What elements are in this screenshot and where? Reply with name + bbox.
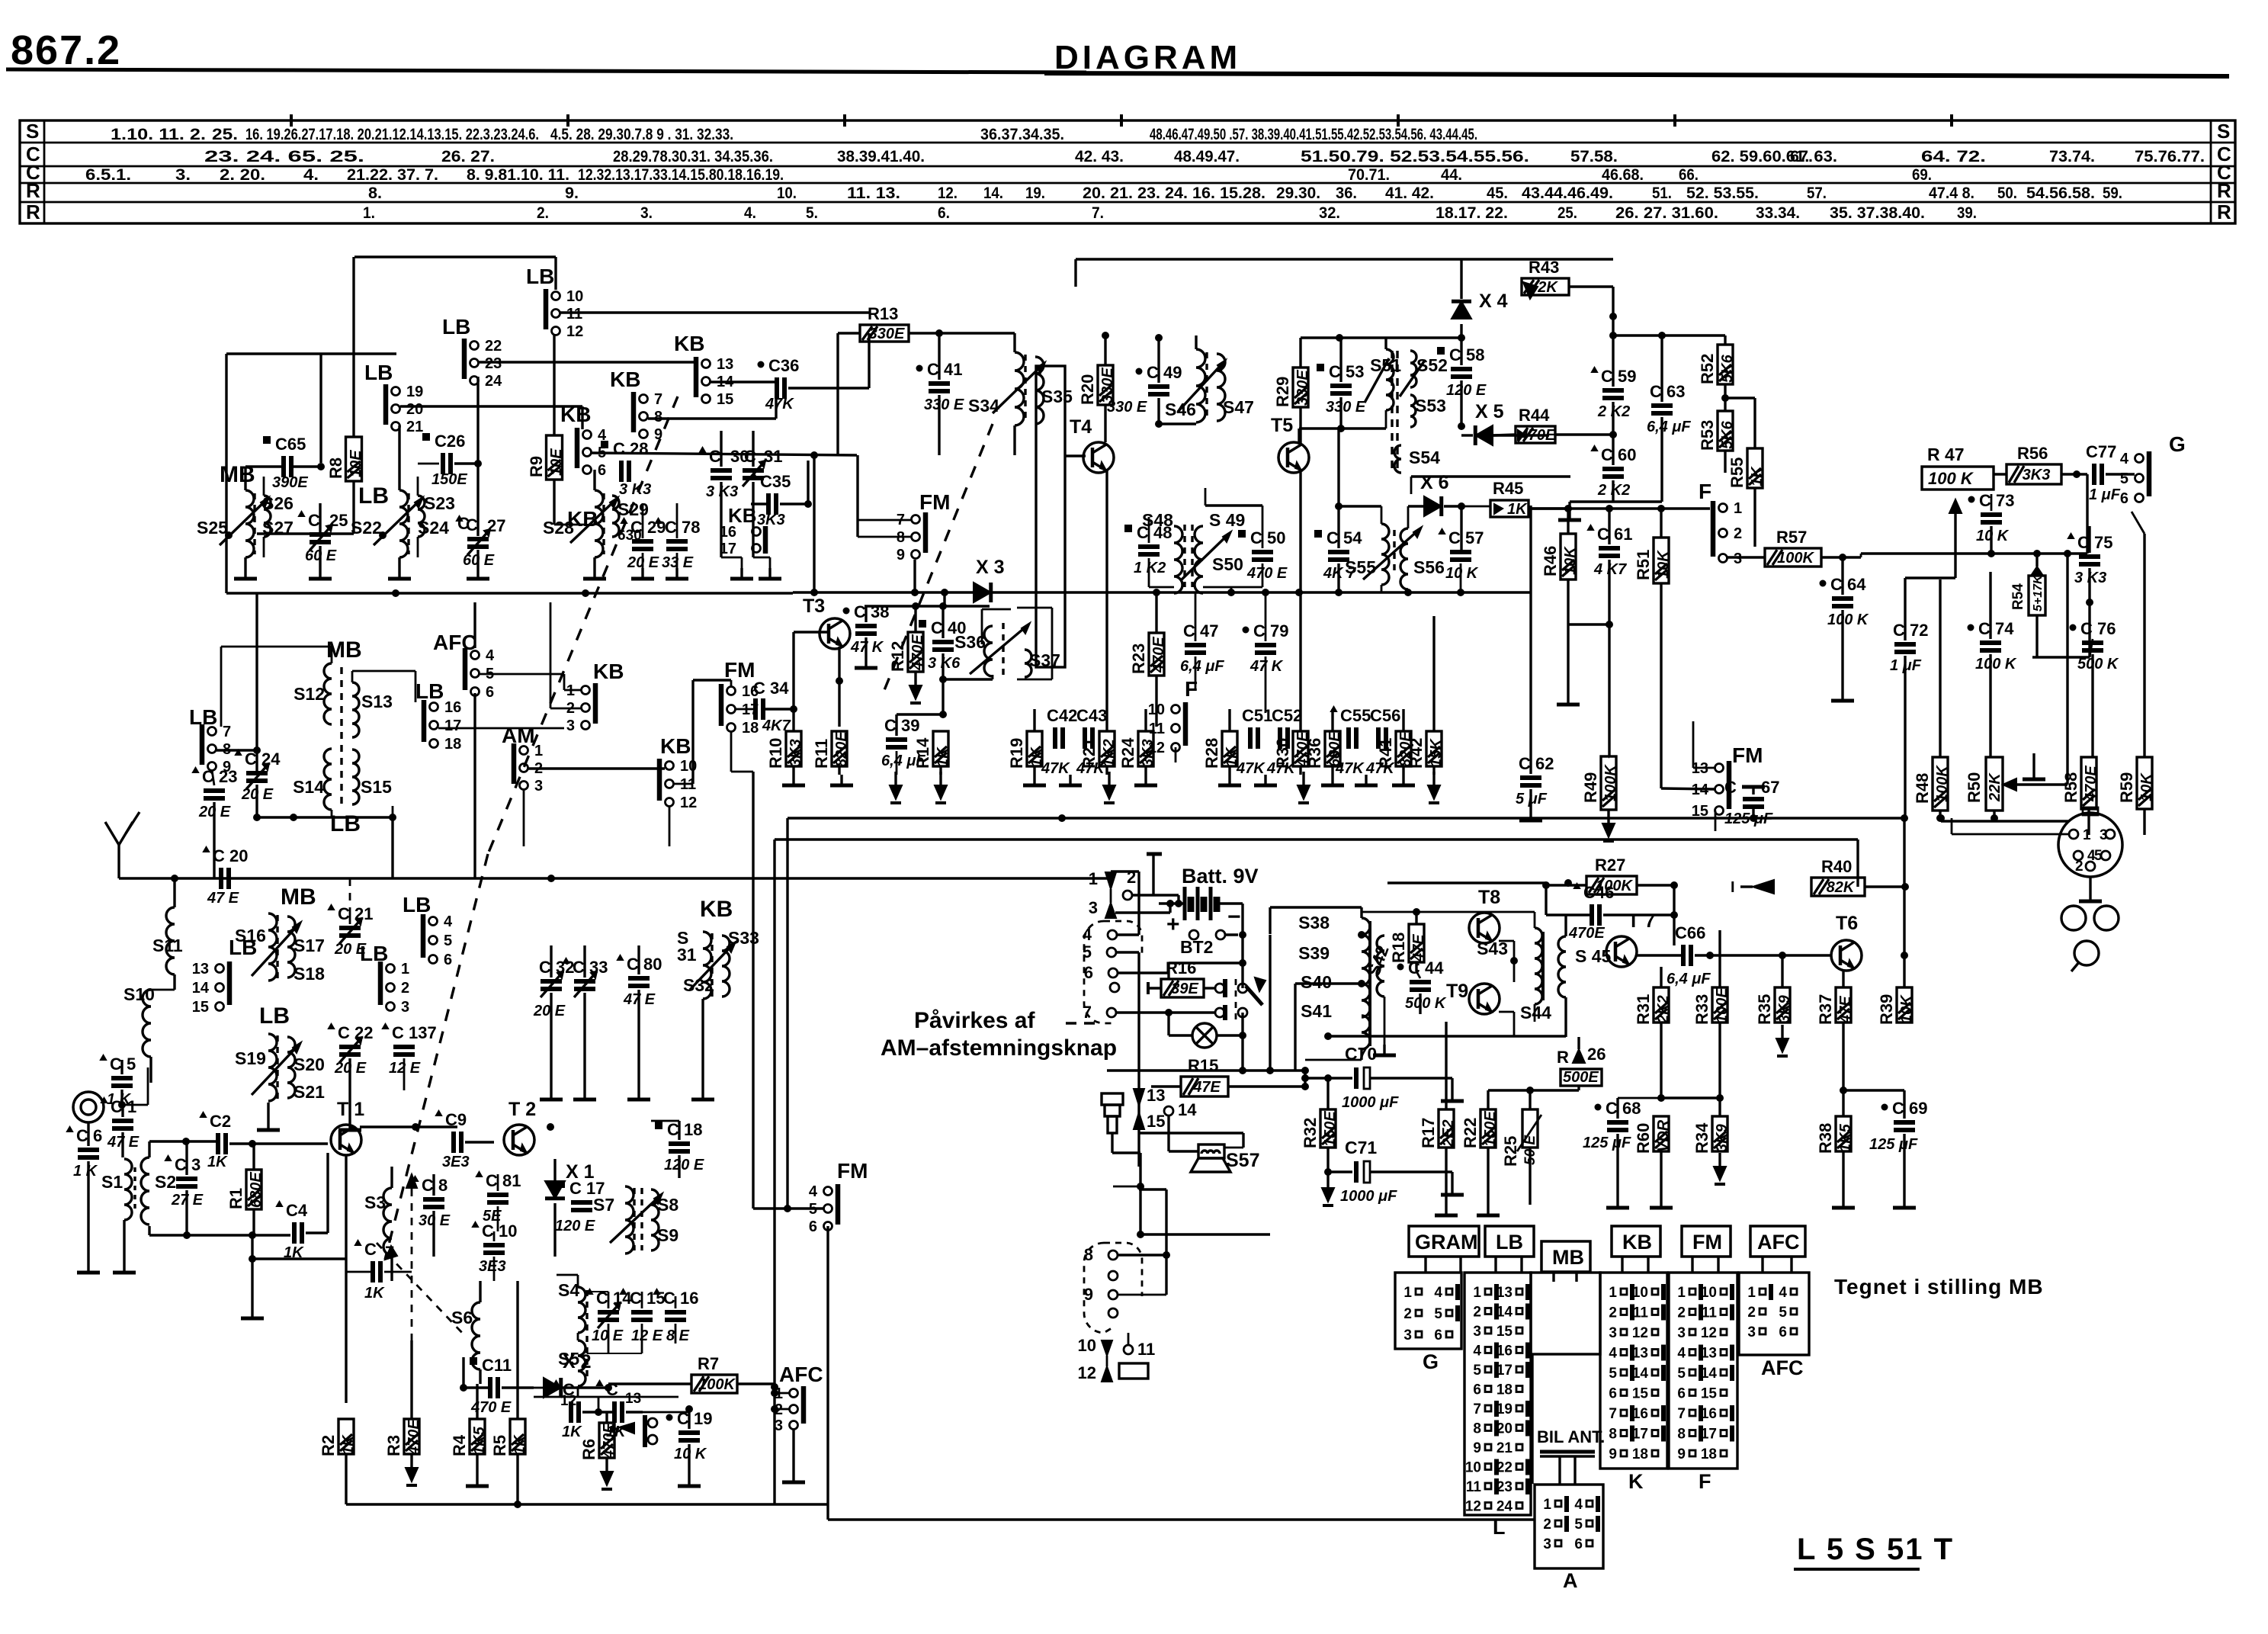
- svg-text:2: 2: [1543, 1517, 1551, 1533]
- svg-text:7: 7: [1473, 1401, 1481, 1417]
- resistor R4 1K5: [470, 1419, 485, 1454]
- svg-text:11: 11: [1137, 1340, 1155, 1359]
- svg-text:7: 7: [1083, 1003, 1092, 1022]
- capacitor C75 3K3: [2079, 554, 2100, 559]
- svg-text:330 E: 330 E: [1107, 399, 1147, 416]
- svg-text:C 34: C 34: [753, 679, 789, 698]
- svg-text:C26: C26: [435, 432, 465, 451]
- svg-text:44.: 44.: [1441, 166, 1462, 184]
- diode X2: [544, 1378, 561, 1398]
- svg-text:2: 2: [1677, 1305, 1686, 1321]
- svg-text:6: 6: [1779, 1324, 1787, 1340]
- transistor T8: [1469, 913, 1500, 943]
- pins 13 14 15 antenna: [1134, 1089, 1144, 1106]
- svg-text:S19: S19: [235, 1048, 266, 1068]
- wire pin14 down: [1167, 1116, 1169, 1151]
- svg-text:18: 18: [742, 720, 759, 737]
- wire upper vertical to C65: [319, 354, 322, 463]
- svg-text:L 5 S 51 T: L 5 S 51 T: [1797, 1533, 1954, 1566]
- svg-text:6: 6: [444, 952, 452, 968]
- trimmer capacitor C33 20E: [574, 979, 595, 984]
- svg-text:X 6: X 6: [1420, 472, 1449, 493]
- capacitor C30 3K3: [711, 468, 732, 473]
- svg-text:32.: 32.: [1319, 204, 1340, 222]
- capacitor C35 3K3: [766, 493, 771, 515]
- svg-text:A: A: [1563, 1569, 1578, 1592]
- svg-text:S27: S27: [262, 518, 294, 538]
- capacitor C80 47E: [628, 976, 650, 981]
- svg-text:39.: 39.: [1957, 204, 1977, 222]
- svg-text:C 59: C 59: [1601, 367, 1636, 386]
- capacitor C11 470E: [488, 1377, 492, 1398]
- svg-text:3E3: 3E3: [442, 1154, 470, 1170]
- svg-text:C 58: C 58: [1449, 345, 1484, 364]
- svg-text:AFC: AFC: [433, 631, 477, 654]
- svg-text:57.58.: 57.58.: [1570, 148, 1618, 165]
- DIN socket right: [2058, 813, 2122, 877]
- svg-text:1: 1: [1747, 1285, 1756, 1301]
- battery connector BT2: [1189, 930, 1198, 939]
- svg-text:3: 3: [1734, 551, 1742, 567]
- svg-text:46.68.: 46.68.: [1602, 166, 1644, 184]
- svg-text:C 74: C 74: [1978, 619, 2014, 638]
- svg-text:S35: S35: [1041, 387, 1073, 406]
- component location table frame: [20, 120, 2235, 223]
- coil S45 driver: [1558, 936, 1566, 997]
- svg-text:67.: 67.: [1790, 148, 1813, 165]
- connector block F: [1669, 1273, 1737, 1469]
- svg-text:S7: S7: [593, 1195, 614, 1215]
- svg-text:4: 4: [1473, 1343, 1481, 1360]
- svg-text:5+17K: 5+17K: [2032, 574, 2045, 612]
- resistor R41 820E: [1396, 731, 1411, 766]
- svg-text:2. 20.: 2. 20.: [220, 166, 265, 184]
- coil S36 S37: [984, 626, 993, 676]
- svg-text:R30: R30: [1273, 738, 1292, 769]
- potentiometer R54 5+17K: [2029, 576, 2045, 615]
- resistor R19 1K: [1027, 731, 1042, 766]
- svg-text:C46: C46: [1583, 883, 1614, 902]
- capacitor C62 5uF: [1520, 775, 1541, 780]
- svg-text:C 64: C 64: [1830, 575, 1866, 594]
- svg-text:S3: S3: [364, 1193, 386, 1212]
- svg-text:9: 9: [1609, 1446, 1617, 1462]
- svg-text:C 50: C 50: [1250, 528, 1285, 547]
- svg-text:6.5.1.: 6.5.1.: [85, 166, 131, 184]
- capacitor C18 120E: [669, 1141, 690, 1146]
- svg-text:1K: 1K: [512, 1434, 528, 1455]
- svg-text:470 E: 470 E: [1246, 565, 1288, 582]
- svg-text:S6: S6: [451, 1308, 473, 1327]
- svg-text:47K: 47K: [1335, 760, 1365, 777]
- capacitor C65 390E: [281, 456, 286, 477]
- svg-text:C 81: C 81: [486, 1171, 521, 1190]
- svg-text:4: 4: [2120, 451, 2129, 467]
- svg-text:8. 9.81.10. 11.: 8. 9.81.10. 11.: [467, 166, 569, 184]
- capacitor C71 1000uF: [1354, 1161, 1359, 1183]
- svg-text:R21: R21: [1079, 738, 1099, 769]
- svg-text:28.29.78.30.31. 34.35.36.: 28.29.78.30.31. 34.35.36.: [613, 148, 773, 165]
- transistor T2: [504, 1125, 534, 1155]
- battery switch box: [1111, 870, 1139, 872]
- capacitor C77 1uF: [2092, 464, 2096, 485]
- svg-text:26. 27. 31.60.: 26. 27. 31.60.: [1615, 204, 1718, 222]
- svg-text:S39: S39: [1298, 943, 1330, 963]
- svg-text:C: C: [709, 447, 721, 466]
- svg-text:1: 1: [1677, 1285, 1686, 1301]
- svg-text:C66: C66: [1675, 923, 1705, 942]
- svg-text:22K: 22K: [1987, 772, 2003, 802]
- connector block L: [1464, 1273, 1531, 1515]
- svg-text:24: 24: [485, 373, 502, 390]
- resistor R5 1K: [510, 1419, 525, 1454]
- capacitor C20 47E: [219, 868, 223, 889]
- bottom bus middle: [775, 1503, 828, 1505]
- svg-text:S41: S41: [1301, 1001, 1332, 1021]
- svg-text:64. 72.: 64. 72.: [1921, 148, 1986, 165]
- svg-text:3K9: 3K9: [1776, 994, 1793, 1023]
- svg-text:19: 19: [406, 384, 423, 400]
- svg-text:C 53: C 53: [1329, 362, 1364, 381]
- svg-text:4: 4: [1779, 1285, 1787, 1301]
- svg-text:29.30.: 29.30.: [1276, 185, 1320, 202]
- svg-text:C52: C52: [1272, 706, 1302, 725]
- svg-text:16: 16: [1701, 1406, 1717, 1422]
- svg-text:8: 8: [1473, 1421, 1481, 1437]
- svg-text:T 2: T 2: [508, 1099, 536, 1120]
- resistor R34 3K9: [1712, 1116, 1727, 1151]
- headphone jacks: [2061, 906, 2086, 930]
- wire oscillator bus down to C24 node: [255, 593, 258, 772]
- svg-text:150E: 150E: [1322, 1111, 1339, 1147]
- wire LB17 right: [438, 727, 564, 730]
- svg-text:6: 6: [1084, 963, 1093, 982]
- svg-text:33.34.: 33.34.: [1756, 204, 1800, 222]
- svg-text:LB: LB: [259, 1003, 290, 1029]
- diode X1: [545, 1181, 565, 1199]
- diode X3: [974, 583, 991, 602]
- svg-text:26. 27.: 26. 27.: [441, 148, 495, 165]
- svg-text:R33: R33: [1692, 994, 1711, 1025]
- svg-text:C 75: C 75: [2077, 533, 2112, 552]
- resistor R49 100K: [1601, 756, 1616, 810]
- coils S4 S5: [578, 1287, 585, 1333]
- capacitor C34 4K7: [753, 698, 758, 720]
- svg-text:R23: R23: [1129, 644, 1148, 674]
- svg-text:C43: C43: [1076, 706, 1107, 725]
- svg-text:1: 1: [1609, 1285, 1617, 1301]
- svg-text:1: 1: [1734, 500, 1742, 517]
- svg-text:R51: R51: [1634, 550, 1653, 580]
- svg-text:R37: R37: [1816, 994, 1835, 1025]
- capacitor C50 470E: [1252, 550, 1273, 554]
- capacitor C6 1K: [78, 1148, 99, 1152]
- svg-text:25.: 25.: [1557, 204, 1577, 222]
- wire AFC5 right: [480, 673, 564, 676]
- svg-text:11: 11: [1466, 1479, 1482, 1495]
- resistor R40 82K: [1811, 878, 1865, 896]
- resistor R29 330E: [1293, 368, 1308, 407]
- svg-text:R27: R27: [1595, 856, 1625, 875]
- svg-text:31: 31: [677, 945, 697, 965]
- svg-text:S9: S9: [657, 1225, 678, 1245]
- top right feed wire: [1076, 258, 1461, 260]
- svg-text:35. 37.38.40.: 35. 37.38.40.: [1830, 204, 1925, 222]
- whip antenna symbol: [117, 845, 120, 878]
- svg-text:R38: R38: [1816, 1123, 1835, 1154]
- svg-text:13: 13: [625, 1391, 641, 1407]
- svg-text:100 K: 100 K: [1928, 469, 1974, 488]
- label box MB: [1541, 1241, 1590, 1272]
- resistor R59 10K: [2137, 757, 2152, 809]
- svg-text:73.74.: 73.74.: [2049, 148, 2095, 165]
- svg-text:C 22: C 22: [338, 1023, 373, 1042]
- capacitor C53 330E: [1330, 384, 1352, 388]
- svg-text:10: 10: [1632, 1285, 1648, 1301]
- svg-text:1.: 1.: [363, 204, 375, 222]
- svg-text:10: 10: [680, 758, 697, 775]
- svg-text:47K: 47K: [1236, 760, 1266, 777]
- svg-text:S22: S22: [351, 518, 382, 538]
- IF transformer S48 S49 S50: [1174, 526, 1182, 593]
- svg-text:R48: R48: [1913, 773, 1932, 804]
- capacitor C55 47K: [1346, 727, 1351, 749]
- svg-text:LB: LB: [364, 361, 393, 384]
- svg-text:C 44: C 44: [1408, 958, 1444, 978]
- capacitor C74 100K: [1980, 640, 2001, 645]
- svg-text:C 18: C 18: [667, 1120, 702, 1139]
- svg-text:R43: R43: [1529, 258, 1559, 277]
- capacitor C16 8E: [665, 1310, 686, 1315]
- capacitor C81 5E: [487, 1193, 508, 1197]
- svg-text:15K: 15K: [1428, 738, 1445, 767]
- svg-text:X 2: X 2: [563, 1351, 592, 1372]
- table tick marks: [290, 114, 293, 127]
- svg-text:S32: S32: [683, 975, 714, 995]
- svg-text:47.4 8.: 47.4 8.: [1929, 185, 1974, 202]
- svg-text:C 28: C 28: [613, 439, 648, 458]
- capacitor C29 20E: [632, 539, 653, 544]
- ground under S32: [701, 1089, 704, 1099]
- input transformer S1 S2: [124, 1159, 132, 1220]
- svg-text:S20: S20: [294, 1055, 325, 1074]
- capacitor C3 27E: [176, 1177, 197, 1181]
- svg-text:2: 2: [1473, 1305, 1481, 1321]
- lamp: [1192, 1023, 1217, 1048]
- svg-text:R2: R2: [319, 1435, 338, 1456]
- svg-text:R: R: [2217, 179, 2231, 202]
- capacitor C28 3K3: [619, 461, 624, 482]
- svg-text:17: 17: [444, 717, 461, 734]
- wire AM2 to KB10: [528, 767, 665, 769]
- svg-text:12.32.13.17.33.14.15.80.18.16.: 12.32.13.17.33.14.15.80.18.16.19.: [578, 166, 784, 184]
- wires DIN pins: [1117, 933, 1139, 936]
- svg-text:S21: S21: [294, 1082, 325, 1102]
- svg-text:AFC: AFC: [1757, 1231, 1800, 1254]
- svg-text:5: 5: [1083, 942, 1092, 961]
- svg-text:3: 3: [1747, 1324, 1756, 1340]
- connector block G: [1395, 1273, 1461, 1349]
- svg-text:22: 22: [1496, 1460, 1513, 1476]
- svg-text:R1: R1: [226, 1188, 245, 1209]
- svg-text:BIL ANT.: BIL ANT.: [1537, 1427, 1605, 1446]
- svg-text:T 1: T 1: [337, 1099, 364, 1120]
- wire pin7 row: [1116, 1011, 1215, 1013]
- supply bus left drop: [786, 818, 788, 1209]
- ground rail under C60 C63: [1570, 500, 1662, 502]
- svg-text:100K: 100K: [698, 1376, 736, 1393]
- svg-text:C 68: C 68: [1606, 1099, 1641, 1118]
- svg-text:39E: 39E: [1171, 981, 1198, 997]
- svg-text:7: 7: [1677, 1406, 1686, 1422]
- svg-text:16: 16: [1632, 1406, 1648, 1422]
- resistor R45 1K arrow box: [1490, 500, 1529, 517]
- svg-text:C: C: [457, 514, 470, 533]
- capacitor C43 47K: [1083, 727, 1087, 749]
- svg-text:C 20: C 20: [213, 846, 248, 865]
- svg-text:10E: 10E: [548, 448, 565, 476]
- svg-text:24: 24: [1496, 1499, 1513, 1515]
- svg-text:47E: 47E: [1192, 1079, 1221, 1096]
- svg-text:S10: S10: [124, 984, 155, 1004]
- capacitor C46 470E: [1590, 904, 1594, 926]
- wire antenna bus C20 long: [119, 877, 1107, 879]
- svg-text:R18: R18: [1389, 933, 1408, 963]
- svg-text:C35: C35: [760, 472, 791, 491]
- capacitor C54 4K7: [1328, 550, 1349, 554]
- svg-text:25.: 25.: [212, 126, 238, 143]
- svg-text:5: 5: [1609, 1366, 1617, 1382]
- svg-text:3: 3: [566, 717, 575, 734]
- svg-text:5: 5: [1677, 1366, 1686, 1382]
- svg-text:C 137: C 137: [392, 1023, 437, 1042]
- svg-text:R40: R40: [1821, 857, 1852, 876]
- svg-text:100K: 100K: [1934, 765, 1951, 802]
- svg-text:C36: C36: [768, 356, 799, 375]
- svg-text:R60: R60: [1634, 1123, 1653, 1154]
- dashed gang S3: [411, 1174, 413, 1340]
- resistor R30 470E: [1293, 731, 1308, 766]
- ground row under IF resistors: [792, 775, 794, 785]
- svg-text:T9: T9: [1446, 981, 1468, 1002]
- svg-text:S: S: [26, 120, 39, 143]
- svg-text:69.: 69.: [1912, 166, 1932, 184]
- svg-text:C 49: C 49: [1147, 363, 1182, 382]
- svg-text:67: 67: [1761, 778, 1779, 797]
- svg-text:S11: S11: [152, 936, 183, 955]
- capacitor C13 1K: [612, 1401, 617, 1423]
- resistor R27 100K: [1586, 876, 1637, 894]
- svg-text:15: 15: [192, 999, 209, 1016]
- switch lever battery: [1246, 986, 1262, 1005]
- svg-text:LB: LB: [358, 483, 389, 509]
- svg-text:820E: 820E: [833, 731, 850, 767]
- svg-text:1: 1: [2083, 827, 2091, 843]
- svg-text:7: 7: [223, 724, 231, 740]
- svg-text:9: 9: [1473, 1440, 1481, 1456]
- wire T1 collector right: [360, 1125, 457, 1128]
- svg-text:KB: KB: [674, 332, 704, 355]
- transistor T4: [1083, 442, 1114, 473]
- svg-text:21: 21: [1496, 1440, 1513, 1456]
- resistor R37 47E: [1836, 987, 1851, 1022]
- svg-text:8.: 8.: [368, 185, 382, 202]
- capacitor C49 330E: [1148, 384, 1169, 389]
- svg-text:R12: R12: [888, 641, 907, 672]
- svg-text:C 21: C 21: [338, 904, 373, 923]
- svg-text:9: 9: [897, 547, 905, 563]
- svg-text:17: 17: [1496, 1363, 1513, 1379]
- svg-text:1000 μF: 1000 μF: [1342, 1094, 1399, 1111]
- svg-text:2: 2: [1609, 1305, 1617, 1321]
- svg-text:C65: C65: [275, 435, 306, 454]
- label box FM: [1682, 1226, 1731, 1257]
- svg-text:KB: KB: [700, 897, 733, 922]
- trimmer capacitor C27 60E: [467, 537, 489, 541]
- svg-text:C9: C9: [445, 1110, 467, 1129]
- IF transformer S55 S56: [1381, 524, 1389, 585]
- svg-text:22: 22: [485, 338, 502, 355]
- transistor T7: [1606, 936, 1637, 967]
- bottom bus of oscillator block: [226, 592, 793, 594]
- wire FM18 down to vertical: [730, 730, 733, 772]
- contact pair left of C19: [648, 1418, 657, 1427]
- svg-text:LB: LB: [442, 315, 470, 339]
- svg-text:S 45: S 45: [1575, 946, 1612, 966]
- svg-text:50.: 50.: [1997, 185, 2017, 202]
- svg-text:41. 42.: 41. 42.: [1385, 185, 1434, 202]
- svg-text:MB: MB: [281, 884, 316, 910]
- resistor R44 470E: [1516, 426, 1555, 443]
- svg-text:KB: KB: [610, 368, 640, 391]
- svg-text:3: 3: [2100, 827, 2108, 843]
- svg-text:8: 8: [1609, 1427, 1617, 1443]
- svg-text:47K: 47K: [1041, 760, 1070, 777]
- capacitor C59 2K2: [1602, 388, 1624, 393]
- svg-text:S1: S1: [101, 1172, 123, 1192]
- svg-text:1.10. 11. 2.: 1.10. 11. 2.: [111, 126, 206, 143]
- output transformer S43 S44: [1535, 928, 1542, 1004]
- svg-text:680E: 680E: [248, 1172, 265, 1208]
- wire R37 R38 junction: [1842, 1022, 1844, 1116]
- svg-text:15: 15: [1147, 1112, 1165, 1131]
- wires transformer MB LB: [331, 647, 333, 663]
- capacitor C40 3K6: [932, 640, 954, 644]
- svg-text:3.: 3.: [640, 204, 653, 222]
- speaker S57: [1198, 1144, 1224, 1158]
- resistor R31 2K2: [1654, 987, 1669, 1022]
- resistor R24 3K3: [1138, 731, 1153, 766]
- svg-text:11: 11: [1149, 721, 1165, 737]
- battery minus lead: [1217, 902, 1243, 904]
- capacitor C12 1K: [569, 1401, 573, 1423]
- svg-text:330 E: 330 E: [924, 396, 964, 413]
- wire to connector A: [826, 1504, 829, 1520]
- resistor R7 100K: [691, 1375, 737, 1393]
- svg-text:3.: 3.: [175, 166, 191, 184]
- svg-text:C 72: C 72: [1893, 621, 1928, 640]
- svg-text:S38: S38: [1298, 913, 1330, 933]
- svg-text:10 K: 10 K: [1976, 528, 2010, 544]
- capacitor C8 30E: [423, 1197, 444, 1202]
- svg-text:51.: 51.: [1652, 185, 1672, 202]
- svg-text:R20: R20: [1078, 374, 1097, 405]
- svg-text:8: 8: [1084, 1245, 1093, 1264]
- svg-text:R: R: [1557, 1048, 1569, 1067]
- svg-text:20: 20: [406, 401, 423, 418]
- svg-text:C77: C77: [2086, 442, 2116, 461]
- svg-text:S15: S15: [361, 777, 392, 797]
